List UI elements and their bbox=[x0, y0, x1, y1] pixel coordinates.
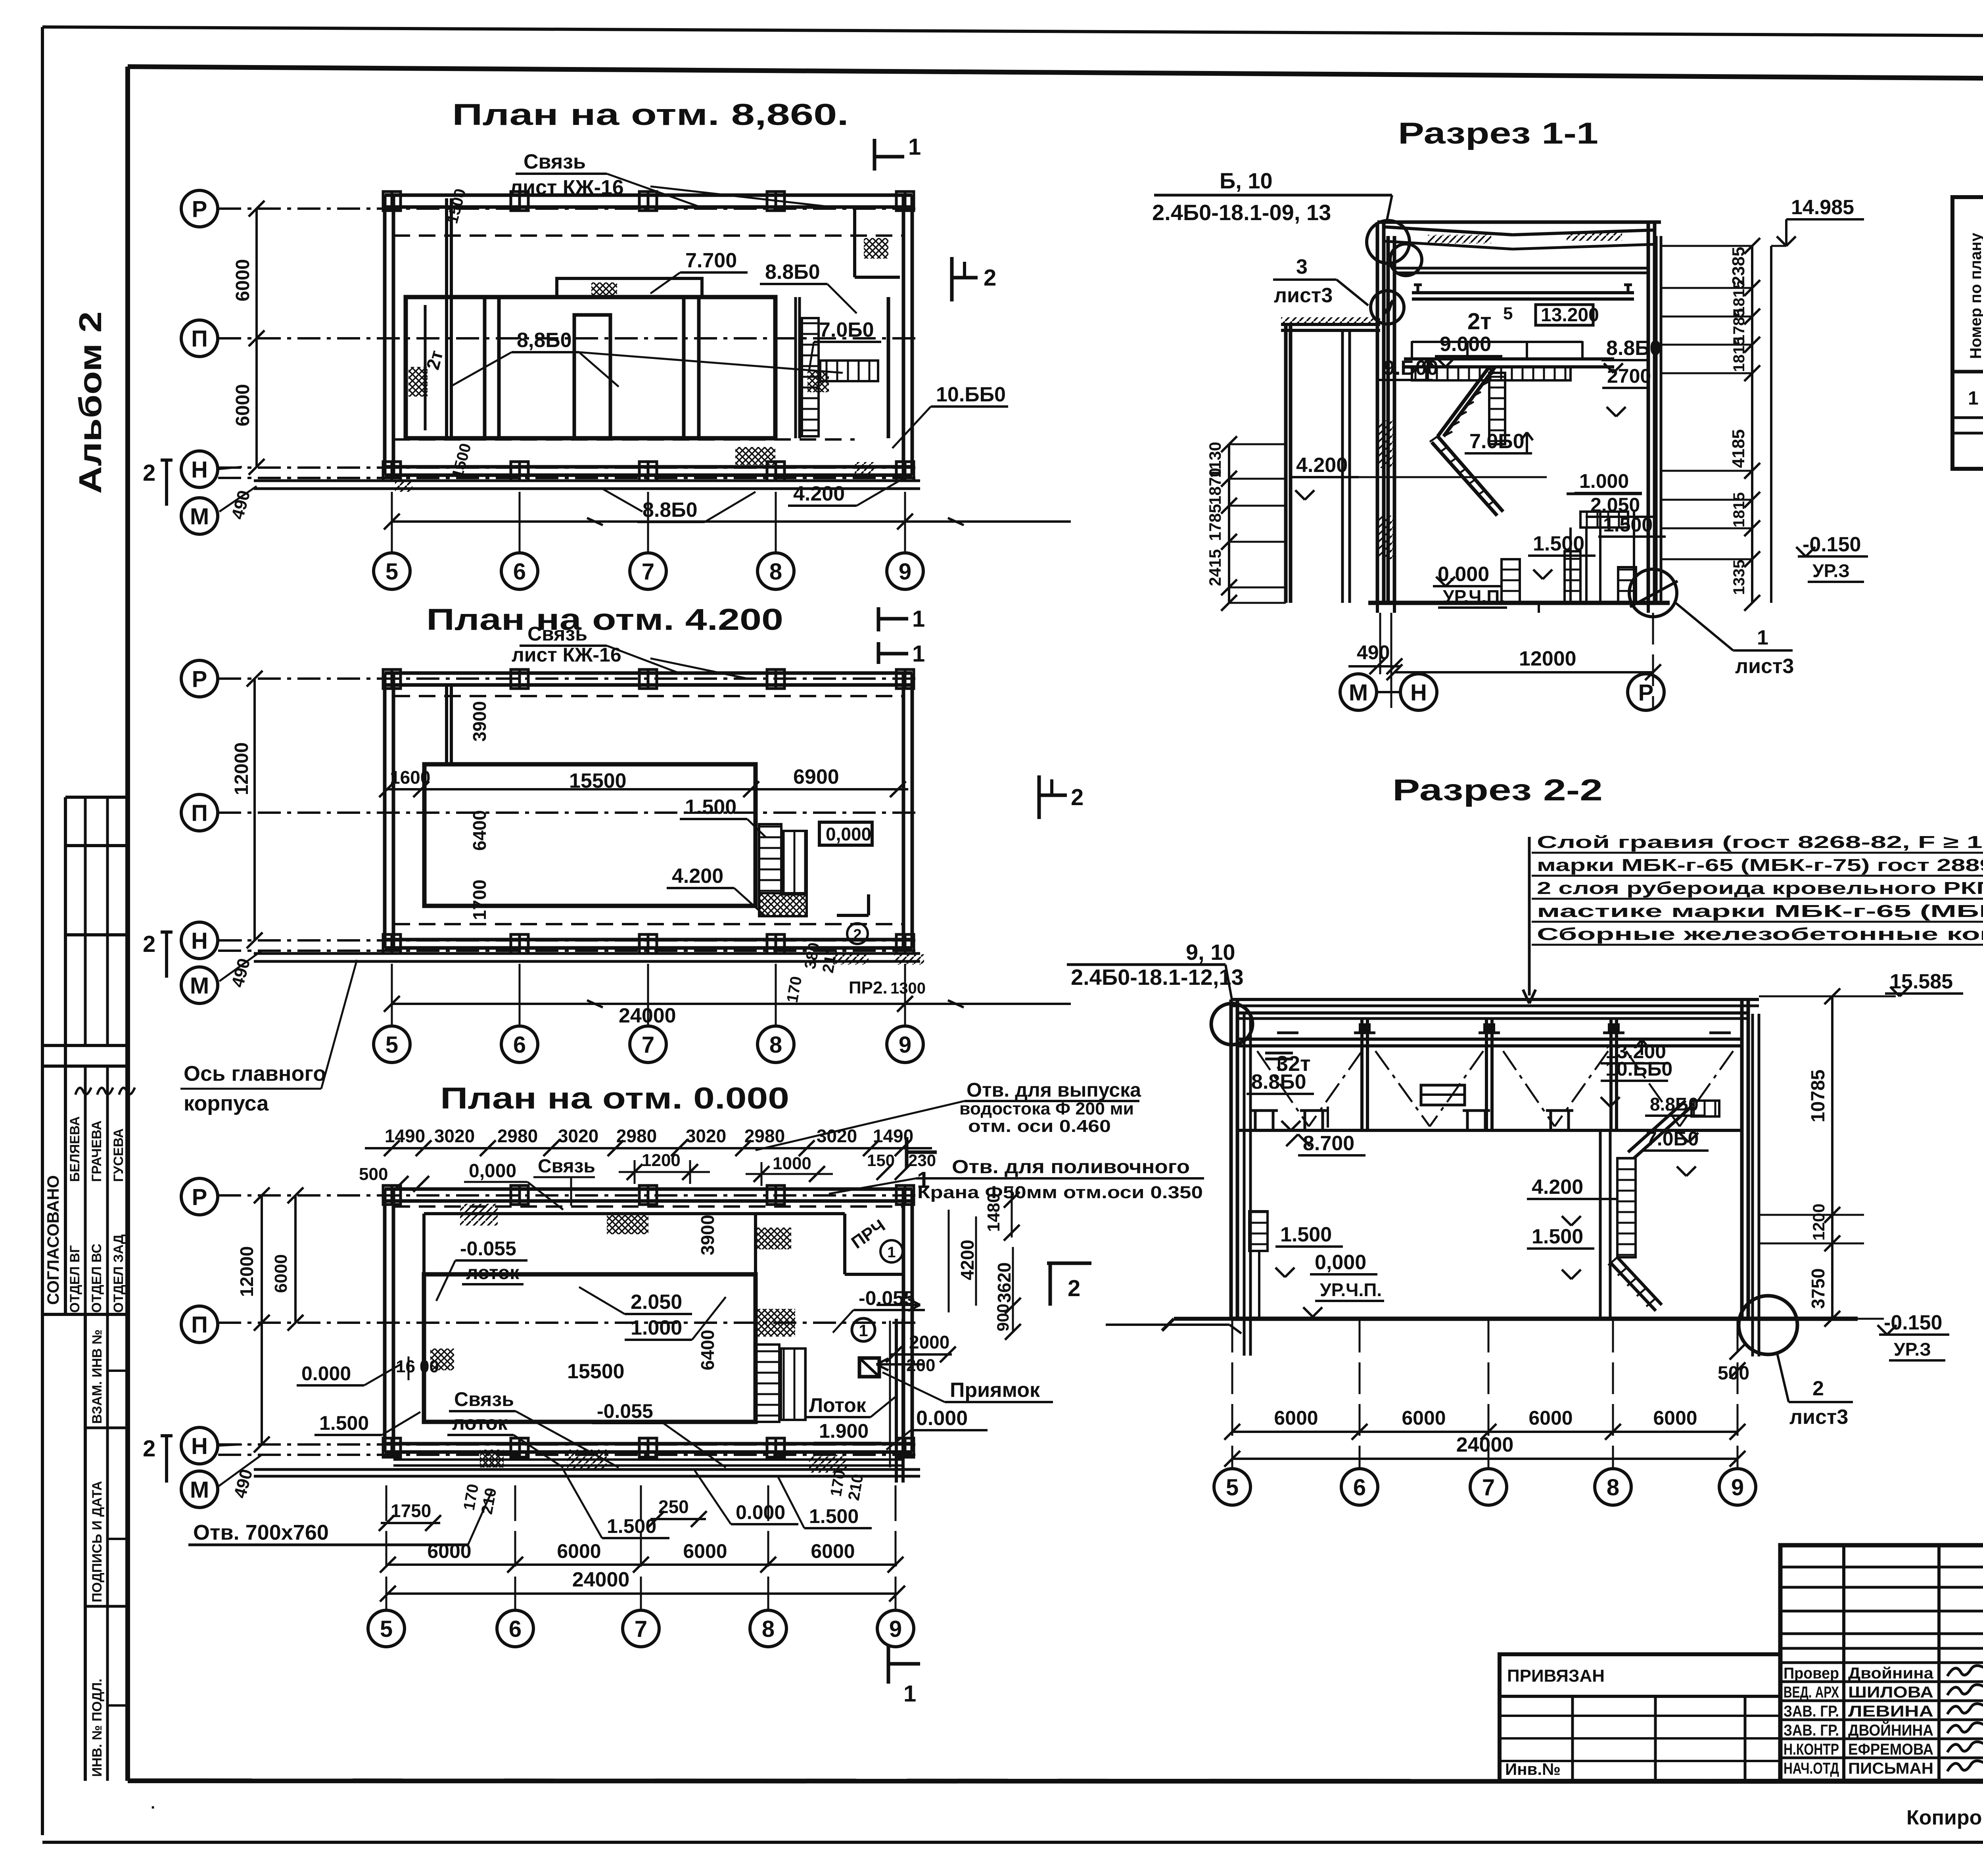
svg-text:ИНВ. № ПОДЛ.: ИНВ. № ПОДЛ. bbox=[90, 1678, 105, 1777]
svg-text:7.700: 7.700 bbox=[685, 249, 737, 272]
plan 4.200: left vertical strip bbox=[445, 685, 448, 764]
svg-text:9, 10: 9, 10 bbox=[1186, 940, 1235, 965]
section 2-2: crane beam line bbox=[1237, 1038, 1742, 1041]
svg-text:Р: Р bbox=[192, 196, 207, 222]
svg-text:2: 2 bbox=[1068, 1276, 1080, 1301]
plan 8.860: tank outline bbox=[406, 297, 775, 438]
svg-text:8: 8 bbox=[769, 1032, 782, 1058]
svg-text:ЗАВ. ГР.: ЗАВ. ГР. bbox=[1784, 1722, 1839, 1739]
svg-text:2700: 2700 bbox=[1607, 365, 1651, 387]
plan 8.860: grid circle 6 bbox=[501, 553, 538, 589]
plan 8.860: stair horizontal ladder bbox=[820, 361, 878, 381]
section 1-1: annex walls bbox=[1284, 325, 1288, 603]
svg-text:8.8Б0: 8.8Б0 bbox=[1650, 1094, 1699, 1114]
explication: table frame bbox=[1952, 197, 1983, 469]
svg-text:2: 2 bbox=[143, 1436, 155, 1462]
svg-text:1.500: 1.500 bbox=[809, 1505, 859, 1527]
svg-text:водостока Ф 200 ми: водостока Ф 200 ми bbox=[959, 1099, 1134, 1118]
plan 8.860: tank inner partition left bbox=[424, 305, 427, 430]
plan 0.000: axis circle N bbox=[181, 1427, 218, 1464]
svg-text:00: 00 bbox=[420, 1357, 439, 1376]
svg-text:М: М bbox=[190, 1477, 209, 1503]
svg-text:6000: 6000 bbox=[232, 259, 253, 301]
svg-text:7: 7 bbox=[635, 1616, 647, 1642]
svg-text:4.200: 4.200 bbox=[1296, 454, 1348, 477]
plan 0.000: leader N M bbox=[218, 1444, 242, 1446]
plan 4.200: grid circle 9 bbox=[887, 1026, 923, 1063]
plan 4.200: axis Pi dash-dot bbox=[218, 811, 920, 814]
svg-text:6: 6 bbox=[509, 1616, 522, 1642]
section 2-2: walls bbox=[1229, 999, 1233, 1319]
plan 4.200: horizontal dim line 1600/15500/6900 bbox=[387, 788, 908, 790]
svg-text:Н: Н bbox=[191, 457, 208, 483]
plan 8.860: axis circle Pi bbox=[181, 320, 218, 357]
plan 0.000: right wall extension down bbox=[895, 1319, 898, 1483]
svg-text:1: 1 bbox=[908, 134, 921, 160]
plan 4.200: axis circle P bbox=[181, 660, 218, 697]
svg-text:2385: 2385 bbox=[1729, 247, 1748, 286]
section 1-1: annex roof bbox=[1281, 323, 1380, 326]
svg-text:2.4Б0-18.1-12,13: 2.4Б0-18.1-12,13 bbox=[1071, 965, 1244, 990]
svg-text:4200: 4200 bbox=[957, 1240, 978, 1280]
svg-text:8,8Б0: 8,8Б0 bbox=[517, 329, 572, 352]
title block: privyazan box bbox=[1500, 1654, 1780, 1781]
plan 8.860: tank divider 1 bbox=[483, 297, 487, 438]
svg-text:Разрез 1-1: Разрез 1-1 bbox=[1398, 117, 1598, 150]
plan 0.000: axis circle Pi bbox=[181, 1306, 218, 1343]
svg-text:План на отм. 8,860.: План на отм. 8,860. bbox=[452, 98, 849, 132]
svg-text:0.000: 0.000 bbox=[916, 1407, 968, 1430]
plan 8.860: grid circle 7 bbox=[630, 553, 666, 589]
svg-text:2: 2 bbox=[143, 460, 155, 486]
svg-text:1480: 1480 bbox=[984, 1193, 1003, 1232]
title block: signature rows bbox=[1780, 1680, 1983, 1683]
plan 0.000: tank outline bbox=[424, 1274, 756, 1422]
plan 0.000: grid circle 5 bbox=[368, 1610, 405, 1647]
plan 8.860: stair side wall bbox=[794, 297, 797, 438]
plan 4.200: circled 2 marker bbox=[847, 923, 868, 944]
plan 8.860: axis M dash-dot bbox=[218, 477, 920, 479]
svg-text:10785: 10785 bbox=[1808, 1070, 1829, 1122]
plan 4.200: stair ladders bbox=[759, 824, 781, 893]
svg-text:6000: 6000 bbox=[557, 1540, 601, 1562]
svg-text:9: 9 bbox=[1731, 1475, 1744, 1500]
svg-text:1: 1 bbox=[903, 1681, 916, 1707]
section 1-1: boxed 13.200 bbox=[1536, 305, 1593, 325]
section 2-2: box on slab bbox=[1421, 1085, 1465, 1105]
section 2-2: grid circle 8 bbox=[1595, 1469, 1631, 1505]
section 2-2: vertical ladder mid bbox=[1617, 1158, 1636, 1257]
svg-text:230: 230 bbox=[908, 1151, 936, 1170]
left stamp: inventory column bbox=[84, 1314, 87, 1781]
section 2-2: column capitals bbox=[1277, 1032, 1298, 1034]
plan 4.200: left dim chain bbox=[253, 679, 256, 940]
svg-text:500: 500 bbox=[359, 1164, 388, 1184]
svg-text:2: 2 bbox=[853, 926, 861, 943]
svg-text:Связь: Связь bbox=[538, 1156, 595, 1177]
svg-text:15500: 15500 bbox=[567, 1360, 625, 1383]
svg-text:2980: 2980 bbox=[744, 1126, 785, 1146]
section 2-2: grid circle 5 bbox=[1214, 1469, 1250, 1505]
svg-text:10.ББ0: 10.ББ0 bbox=[1605, 1058, 1672, 1080]
section 2-2: grid circle 9 bbox=[1719, 1469, 1756, 1505]
plan 4.200: section mark 1 top bbox=[877, 642, 880, 664]
svg-text:Сборные железобетонные компле: Сборные железобетонные комплексные плиты bbox=[1537, 925, 1983, 944]
svg-text:1335: 1335 bbox=[1730, 560, 1748, 595]
svg-text:3020: 3020 bbox=[558, 1126, 598, 1146]
plan 8.860: grid drop lines bbox=[391, 492, 393, 553]
svg-text:1.500: 1.500 bbox=[685, 796, 736, 819]
svg-text:1: 1 bbox=[859, 1321, 868, 1340]
svg-text:Инв.№: Инв.№ bbox=[1505, 1760, 1561, 1778]
svg-text:П: П bbox=[191, 326, 208, 352]
plan 4.200: axis circle N bbox=[181, 922, 218, 959]
svg-text:0,000: 0,000 bbox=[469, 1161, 516, 1182]
section 1-1: node circle bottom right bbox=[1629, 569, 1677, 617]
plan 8.860: tank divider 2 bbox=[682, 297, 686, 438]
svg-text:-0.055: -0.055 bbox=[460, 1237, 516, 1260]
section 1-1: roof bbox=[1377, 221, 1661, 224]
svg-text:НАЧ.ОТД: НАЧ.ОТД bbox=[1784, 1760, 1839, 1777]
svg-text:1700: 1700 bbox=[469, 880, 490, 920]
plan 8.860: axis circle P bbox=[181, 190, 218, 227]
section 2-2: crane block 32t bbox=[1265, 1052, 1293, 1055]
svg-text:Н: Н bbox=[191, 1433, 208, 1459]
svg-text:ДВОЙНИНА: ДВОЙНИНА bbox=[1848, 1721, 1933, 1739]
svg-text:6: 6 bbox=[513, 1032, 526, 1058]
plan 8.860: axis circle N bbox=[181, 451, 218, 487]
svg-text:М: М bbox=[1349, 680, 1368, 706]
svg-text:1: 1 bbox=[1757, 626, 1768, 649]
title block: lower-left grid bbox=[1571, 1696, 1574, 1781]
section 1-1: stair lower flight bbox=[1438, 436, 1503, 512]
svg-text:УР.Ч.П.: УР.Ч.П. bbox=[1320, 1279, 1382, 1300]
plan 8.860: leader N M bbox=[218, 467, 242, 469]
svg-text:Связь: Связь bbox=[524, 150, 586, 173]
svg-text:0,000: 0,000 bbox=[1315, 1251, 1366, 1274]
plan 0.000: grid circle 9 bbox=[877, 1610, 914, 1647]
svg-text:1490: 1490 bbox=[385, 1126, 425, 1146]
left stamp: upper empty grid bbox=[65, 796, 130, 799]
svg-text:3: 3 bbox=[1296, 255, 1308, 278]
plan 0.000: grid circle 7 bbox=[623, 1610, 659, 1647]
svg-text:2.050: 2.050 bbox=[631, 1291, 682, 1314]
section 2-2: ground line bbox=[1174, 1317, 1231, 1321]
section 2-2: stair right upper bbox=[1634, 1107, 1691, 1158]
plan 0.000: columns bottom row bbox=[383, 1438, 401, 1457]
svg-text:БЕЛЯЕВА: БЕЛЯЕВА bbox=[67, 1116, 82, 1182]
svg-text:1815: 1815 bbox=[1730, 337, 1748, 372]
section 1-1: node circle list3 bbox=[1371, 291, 1404, 324]
plan 8.860: axis circle M bbox=[181, 498, 218, 534]
section 2-2: below ground wall feet bbox=[1243, 1319, 1246, 1356]
plan 8.860: long vertical wall strips bbox=[445, 198, 448, 438]
plan 4.200: inner dashed service line top bbox=[393, 695, 903, 697]
svg-text:6: 6 bbox=[1353, 1475, 1366, 1500]
svg-text:2.4Б0-18.1-09, 13: 2.4Б0-18.1-09, 13 bbox=[1152, 200, 1331, 225]
svg-text:ГУСЕВА: ГУСЕВА bbox=[111, 1128, 126, 1182]
svg-text:1: 1 bbox=[887, 1244, 896, 1261]
plan 0.000: left dim chains bbox=[261, 1195, 263, 1444]
section 1-1: platform 9.000 bbox=[1404, 357, 1614, 361]
svg-text:9.Б00: 9.Б00 bbox=[1383, 357, 1438, 380]
svg-text:6900: 6900 bbox=[793, 765, 839, 788]
svg-text:Отв. 700х760: Отв. 700х760 bbox=[193, 1521, 329, 1544]
plan 8.860: hatch patches bbox=[408, 367, 428, 397]
svg-text:-0.055: -0.055 bbox=[597, 1400, 653, 1422]
section 2-2: grid drop dashlines bbox=[1231, 1321, 1233, 1467]
svg-text:8.700: 8.700 bbox=[1303, 1132, 1354, 1155]
plan 4.200: bottom dim 24000 bbox=[392, 1003, 1071, 1005]
section 2-2: node circle bottom right bbox=[1739, 1296, 1797, 1354]
svg-text:ПОДПИСЬ И ДАТА: ПОДПИСЬ И ДАТА bbox=[90, 1481, 105, 1602]
svg-text:3750: 3750 bbox=[1808, 1268, 1828, 1309]
svg-text:7: 7 bbox=[1482, 1475, 1495, 1500]
svg-text:1600: 1600 bbox=[390, 767, 430, 788]
svg-text:2980: 2980 bbox=[497, 1126, 538, 1146]
svg-text:0.000: 0.000 bbox=[301, 1362, 351, 1385]
svg-text:Б, 10: Б, 10 bbox=[1220, 168, 1273, 193]
svg-text:Связь: Связь bbox=[527, 623, 587, 645]
svg-text:ОТДЕЛ ЗАД: ОТДЕЛ ЗАД bbox=[111, 1234, 126, 1313]
svg-text:План на отм. 4.200: План на отм. 4.200 bbox=[426, 603, 783, 637]
plan 4.200: grid circle 8 bbox=[758, 1026, 794, 1063]
plan 0.000: axis circle M bbox=[181, 1471, 218, 1508]
svg-text:3020: 3020 bbox=[686, 1126, 726, 1146]
plan 4.200: columns top row bbox=[383, 669, 401, 689]
plan 4.200: axis circle M bbox=[181, 967, 218, 1003]
plan 0.000: canopy lines below bbox=[254, 1468, 920, 1471]
plan 8.860: axis Pi dash-dot bbox=[218, 337, 920, 340]
svg-text:ВЕД. АРХ: ВЕД. АРХ bbox=[1784, 1684, 1839, 1701]
svg-text:9: 9 bbox=[899, 1032, 911, 1058]
svg-text:13.200: 13.200 bbox=[1541, 305, 1599, 326]
plan 8.860: upper platform 7.700 bbox=[557, 278, 702, 297]
svg-text:1: 1 bbox=[1968, 388, 1979, 409]
svg-text:6: 6 bbox=[513, 559, 526, 585]
svg-text:0.000: 0.000 bbox=[1438, 563, 1489, 586]
plan 0.000: axis N dash-dot bbox=[218, 1443, 920, 1446]
svg-text:1.500: 1.500 bbox=[1280, 1223, 1332, 1246]
svg-text:12000: 12000 bbox=[231, 742, 252, 795]
svg-text:ВЗАМ. ИНВ №: ВЗАМ. ИНВ № bbox=[90, 1329, 105, 1424]
section 2-2: lower stair bbox=[1617, 1257, 1662, 1305]
plan 0.000: circled 1 right bbox=[852, 1318, 875, 1341]
svg-text:1.500: 1.500 bbox=[319, 1412, 369, 1434]
plan 8.860: tank right edge compartment bbox=[773, 297, 778, 438]
plan 0.000: hatch patches bbox=[460, 1204, 498, 1226]
title block: small grid left columns bbox=[1842, 1545, 1845, 1781]
svg-text:1.000: 1.000 bbox=[631, 1316, 682, 1339]
svg-text:6400: 6400 bbox=[697, 1330, 718, 1370]
svg-text:0.000: 0.000 bbox=[736, 1501, 785, 1523]
svg-text:.: . bbox=[151, 1795, 155, 1812]
section 2-2: truss braces dash-dot bbox=[1257, 1051, 1309, 1126]
svg-text:6000: 6000 bbox=[427, 1540, 471, 1562]
svg-text:М: М bbox=[190, 973, 209, 999]
svg-text:ЕФРЕМОВА: ЕФРЕМОВА bbox=[1848, 1741, 1933, 1758]
svg-text:СОГЛАСОВАНО: СОГЛАСОВАНО bbox=[44, 1175, 62, 1305]
explication: row lines bbox=[1952, 416, 1983, 419]
plan 4.200: leader N M bbox=[218, 940, 242, 942]
plan 0.000: axis Pi dash-dot bbox=[218, 1322, 920, 1324]
plan 4.200: inner corner mark bbox=[867, 894, 870, 915]
svg-text:9: 9 bbox=[889, 1616, 902, 1642]
svg-text:6000: 6000 bbox=[1274, 1407, 1318, 1429]
svg-text:4185: 4185 bbox=[1729, 429, 1748, 468]
plan 4.200: columns bottom row bbox=[383, 934, 401, 953]
svg-text:Разрез 2-2: Разрез 2-2 bbox=[1392, 773, 1603, 807]
plan 8.860: section mark 1 bottom bbox=[877, 607, 880, 631]
section 1-1: wall hatch bbox=[1377, 420, 1394, 468]
svg-text:Крана Ф50мм отм.оси 0.350: Крана Ф50мм отм.оси 0.350 bbox=[917, 1183, 1203, 1202]
plan 8.860: stair vertical ladder bbox=[802, 318, 819, 436]
section 2-2: slab fixtures bbox=[1254, 1111, 1257, 1130]
svg-text:15.585: 15.585 bbox=[1890, 970, 1953, 993]
plan 4.200: axis P dash-dot bbox=[218, 677, 920, 680]
svg-text:1000: 1000 bbox=[773, 1154, 811, 1173]
title block: small grid row lines bbox=[1780, 1566, 1983, 1569]
section 2-2: grid circle 6 bbox=[1341, 1469, 1378, 1505]
svg-text:ГРАЧЕВА: ГРАЧЕВА bbox=[89, 1120, 104, 1182]
svg-text:6000: 6000 bbox=[811, 1540, 855, 1562]
svg-text:8.8Б0: 8.8Б0 bbox=[1251, 1070, 1306, 1093]
svg-text:П: П bbox=[191, 800, 208, 826]
section 1-1: annex interior verticals bbox=[1341, 330, 1344, 603]
svg-text:1785: 1785 bbox=[1206, 504, 1224, 541]
section 1-1: lower right platforms bbox=[1567, 493, 1642, 495]
plan 0.000: section mark 1 bottom bbox=[887, 1646, 890, 1684]
sheet outer border bbox=[42, 27, 1983, 38]
svg-text:лист3: лист3 bbox=[1789, 1406, 1848, 1429]
plan 0.000: lower channel lines bbox=[393, 1458, 903, 1461]
svg-text:1750: 1750 bbox=[391, 1500, 431, 1521]
section 1-1: axis circle N bbox=[1400, 674, 1437, 710]
svg-text:3620: 3620 bbox=[994, 1262, 1015, 1303]
left stamp: signatures bbox=[75, 1088, 91, 1095]
section 1-1: annex left dim chain bbox=[1228, 444, 1230, 603]
svg-text:2.050: 2.050 bbox=[1590, 494, 1640, 516]
svg-text:8.8Б0: 8.8Б0 bbox=[765, 261, 820, 284]
svg-text:6000: 6000 bbox=[1402, 1407, 1446, 1429]
plan 0.000: grid drop lines bbox=[385, 1485, 387, 1609]
plan 0.000: section mark 2 right bbox=[1049, 1264, 1052, 1306]
svg-text:1.500: 1.500 bbox=[1603, 514, 1653, 536]
section 1-1: bottom ladder bbox=[1502, 559, 1520, 603]
section 1-1: platform railing bbox=[1411, 341, 1413, 359]
svg-text:1200: 1200 bbox=[1809, 1204, 1828, 1241]
plan 8.860: left dim chain bbox=[255, 209, 258, 467]
svg-text:4.200: 4.200 bbox=[1532, 1176, 1583, 1199]
svg-text:-0.150: -0.150 bbox=[1803, 533, 1861, 556]
section 1-1: axis circle M bbox=[1340, 674, 1377, 710]
svg-text:9: 9 bbox=[899, 559, 911, 585]
plan 8.860: grid circle 9 bbox=[887, 553, 923, 589]
svg-text:7.0Б0: 7.0Б0 bbox=[819, 318, 874, 341]
svg-text:2: 2 bbox=[984, 265, 996, 291]
svg-text:9.000: 9.000 bbox=[1440, 333, 1491, 356]
section 1-1: main walls bbox=[1376, 222, 1379, 603]
svg-text:марки МБК-г-65 (МБК-г-75) гос: марки МБК-г-65 (МБК-г-75) гост 2889-80 -… bbox=[1537, 856, 1983, 875]
svg-text:Н: Н bbox=[1410, 680, 1427, 706]
plan 8.860: section mark 2 right bbox=[950, 257, 954, 301]
svg-text:ОТДЕЛ ВС: ОТДЕЛ ВС bbox=[89, 1244, 104, 1313]
svg-text:Связь: Связь bbox=[454, 1388, 514, 1410]
svg-text:Альбом 2: Альбом 2 bbox=[73, 311, 108, 494]
section 1-1: floor line bbox=[1368, 601, 1670, 605]
section 2-2: stair platform 10.660 bbox=[1691, 1101, 1719, 1116]
svg-text:6000: 6000 bbox=[232, 384, 253, 426]
svg-text:24000: 24000 bbox=[572, 1568, 630, 1591]
svg-text:корпуса: корпуса bbox=[184, 1091, 269, 1115]
plan 4.200: section mark 2 right bbox=[1038, 775, 1041, 819]
plan 0.000: axis M dash-dot bbox=[218, 1454, 920, 1456]
svg-text:8.8Б0: 8.8Б0 bbox=[1606, 337, 1661, 360]
plan 0.000: inner upper room walls bbox=[424, 1212, 845, 1215]
svg-text:ОТДЕЛ ВГ: ОТДЕЛ ВГ bbox=[67, 1245, 82, 1313]
plan 8.860: canopy lines below bbox=[254, 480, 920, 482]
svg-text:4.200: 4.200 bbox=[793, 482, 845, 505]
svg-text:5: 5 bbox=[1503, 304, 1513, 323]
plan 0.000: stair block bbox=[756, 1345, 779, 1422]
left stamp: approval table bbox=[42, 1044, 130, 1047]
section 2-2: grid circle 7 bbox=[1470, 1469, 1507, 1505]
svg-text:10.ББ0: 10.ББ0 bbox=[936, 383, 1006, 406]
plan 8.860: inner dashed service lines bbox=[393, 234, 903, 237]
plan 4.200: grid circle 7 bbox=[630, 1026, 666, 1063]
svg-text:1.000: 1.000 bbox=[1579, 470, 1629, 492]
section 1-1: right dim chain bbox=[1751, 246, 1753, 603]
explication: header bottom line bbox=[1952, 370, 1983, 374]
svg-text:1: 1 bbox=[912, 641, 925, 667]
svg-text:7.0Б0: 7.0Б0 bbox=[1469, 430, 1525, 453]
section 1-1: node circles top bbox=[1367, 221, 1410, 263]
section 2-2: node circle top left bbox=[1211, 1003, 1252, 1045]
plan 8.860: grid circle 8 bbox=[758, 553, 794, 589]
svg-text:1.900: 1.900 bbox=[819, 1420, 869, 1442]
svg-text:5: 5 bbox=[385, 559, 398, 585]
plan 4.200: building outline walls bbox=[385, 671, 912, 675]
svg-text:2415: 2415 bbox=[1206, 549, 1224, 586]
plan 8.860: columns top row bbox=[383, 192, 401, 211]
section 1-1: crane beam bbox=[1412, 291, 1634, 294]
svg-text:М: М bbox=[190, 504, 209, 529]
svg-text:Р: Р bbox=[192, 666, 207, 692]
svg-text:Приямок: Приямок bbox=[950, 1379, 1040, 1402]
svg-text:Р: Р bbox=[192, 1184, 207, 1210]
section 2-2: extension lines right bbox=[1759, 996, 1896, 997]
svg-text:1815: 1815 bbox=[1730, 492, 1748, 528]
plan 0.000: axis P dash-dot bbox=[218, 1194, 920, 1197]
plan 4.200: canopy lines below bbox=[254, 952, 920, 955]
svg-text:ЛЕВИНА: ЛЕВИНА bbox=[1848, 1703, 1933, 1720]
svg-text:2000: 2000 bbox=[909, 1332, 949, 1352]
svg-text:лист3: лист3 bbox=[1274, 284, 1333, 307]
svg-text:15500: 15500 bbox=[569, 769, 627, 792]
plan 4.200: axis M dash-dot bbox=[218, 950, 920, 952]
svg-text:Н.КОНТР: Н.КОНТР bbox=[1784, 1741, 1839, 1758]
svg-text:Номер по плану: Номер по плану bbox=[1967, 232, 1983, 359]
svg-text:5: 5 bbox=[385, 1032, 398, 1058]
plan 8.860: columns bottom row bbox=[383, 462, 401, 481]
plan 0.000: right ledge line bbox=[1106, 1324, 1229, 1326]
svg-text:6000: 6000 bbox=[271, 1254, 291, 1293]
svg-text:2980: 2980 bbox=[616, 1126, 657, 1146]
svg-text:12000: 12000 bbox=[236, 1246, 257, 1297]
svg-text:2: 2 bbox=[1071, 785, 1084, 810]
svg-text:ПР2.: ПР2. bbox=[849, 978, 888, 997]
svg-text:8: 8 bbox=[769, 559, 782, 585]
